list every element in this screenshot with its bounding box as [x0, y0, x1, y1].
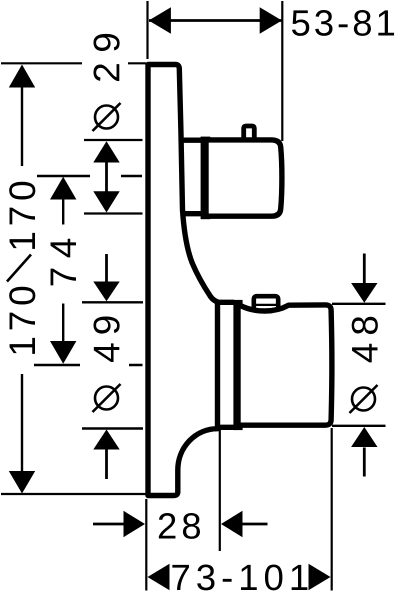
- top handle body: [206, 140, 282, 216]
- dim dia48 bottom extension line: [332, 425, 386, 427]
- dim 73-101 left arrowhead: [148, 564, 170, 590]
- dim 28 and 73-101 shared left extension line: [145, 499, 147, 591]
- dim 73-101 right arrowhead: [309, 564, 331, 590]
- dim dia48 top arrow: [351, 254, 377, 303]
- dim dia29 label (rotated): [93, 34, 119, 81]
- bottom handle body: [238, 305, 332, 425]
- dim 170/170 top tick: [1, 62, 146, 64]
- dim dia48 label (rotated): [352, 317, 378, 363]
- dim 170/170 label (rotated): [7, 182, 35, 354]
- bottom handle sleeve: [216, 302, 235, 427]
- dim 28 left arrow: [93, 511, 145, 537]
- dim dia29 double arrow: [93, 141, 119, 212]
- dim dia49 label (rotated): [93, 316, 119, 362]
- dim dia29 bottom tick: [84, 212, 143, 214]
- dim dia49 bottom arrow: [93, 430, 119, 480]
- dim 74 top arrowhead: [50, 177, 76, 200]
- dim dia49 bottom tick: [82, 427, 143, 429]
- dim dia29 diameter symbol: [93, 103, 121, 131]
- dim 53-81 left arrowhead: [149, 7, 171, 33]
- bottom handle separation ring: [233, 300, 242, 430]
- top handle sleeve: [181, 140, 202, 214]
- dim 53-81 left extension line: [146, 1, 148, 59]
- dim dia49 diameter symbol: [93, 384, 121, 412]
- top handle tab: [244, 126, 255, 141]
- dim dia48 top extension line: [332, 303, 386, 305]
- dim 73-101 label: [172, 565, 307, 591]
- top handle separation ring: [201, 137, 211, 220]
- bottom handle button: [254, 296, 278, 309]
- dim 28 right arrow: [221, 511, 268, 537]
- dim 170/170 bottom arrowhead: [9, 471, 35, 494]
- dim dia48 diameter symbol: [350, 385, 378, 413]
- dim dia49 top arrow: [93, 254, 119, 301]
- dim 28 right extension line: [219, 429, 221, 551]
- dim 74 bottom arrowhead: [50, 341, 76, 364]
- dim dia48 bottom arrow: [351, 427, 377, 477]
- dim 73-101 right extension line: [331, 428, 333, 591]
- dim 170/170 dimension line: [21, 87, 23, 473]
- dim 74 dimension line: [62, 197, 64, 343]
- escutcheon plate outline: [148, 65, 218, 496]
- bottom handle centerline: [34, 364, 143, 366]
- dim 53-81 right arrowhead: [260, 7, 282, 33]
- dim 74 label (rotated): [51, 239, 76, 286]
- dim 53-81 dimension line: [149, 19, 282, 22]
- dim 53-81 label: [292, 10, 394, 36]
- dim dia49 top tick: [82, 301, 143, 303]
- dim 28 label: [159, 513, 200, 539]
- dim 53-81 right extension line: [281, 1, 283, 141]
- dim 170/170 top arrowhead: [9, 65, 35, 88]
- top handle centerline: [37, 175, 142, 177]
- dim 170/170 bottom tick: [1, 493, 146, 495]
- dim dia29 top tick: [84, 139, 143, 141]
